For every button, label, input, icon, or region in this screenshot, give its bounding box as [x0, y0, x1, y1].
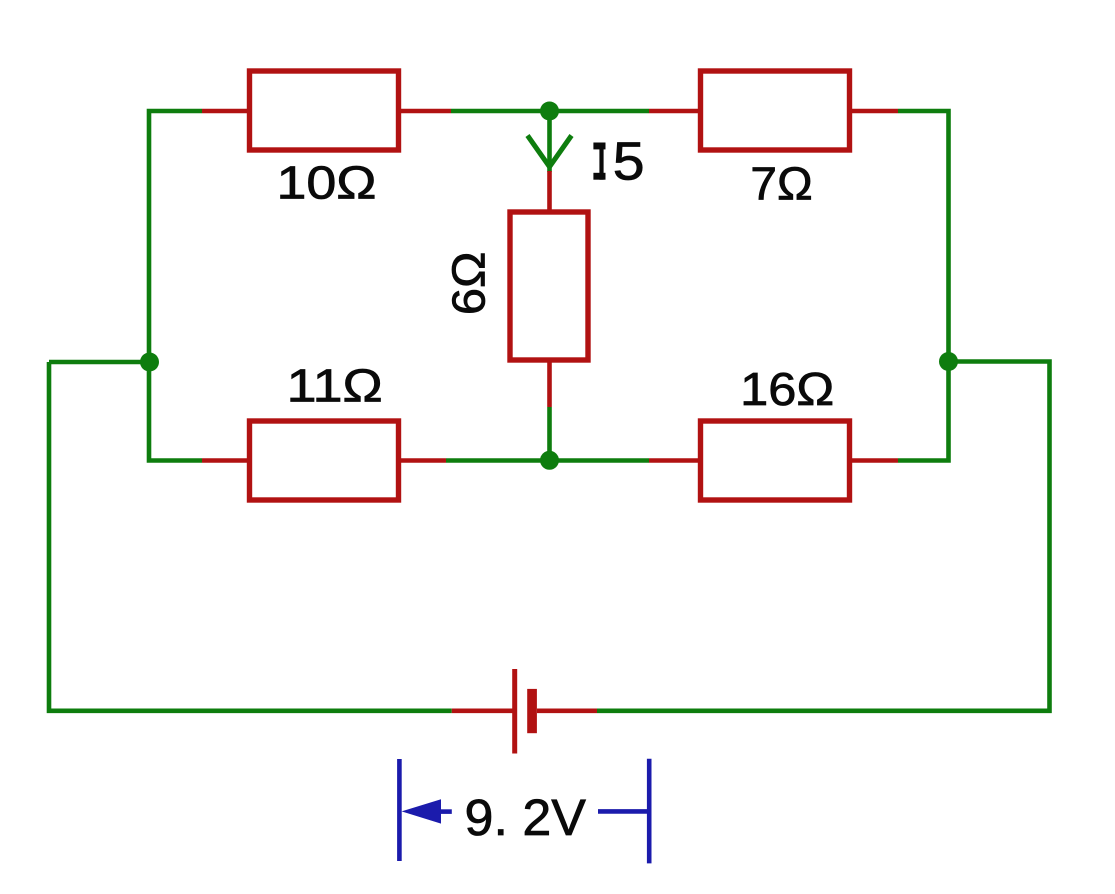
- resistor R3 11ohm box: [250, 421, 399, 500]
- junction dot top node: [540, 102, 559, 121]
- dimension arrow tail stub: [440, 809, 452, 814]
- svg-text:10Ω: 10Ω: [276, 157, 376, 208]
- current arrow I5 head: [528, 136, 572, 167]
- label I5 : serif I drawn as bars: [593, 143, 605, 180]
- junction dot center node: [540, 451, 559, 470]
- wire red lead right of R 11ohm: [396, 458, 446, 463]
- dimension arrowhead blue: [402, 799, 441, 823]
- wire left inner below dot to 11ohm row: [149, 362, 202, 461]
- wire red lead left of R 16ohm: [649, 458, 703, 463]
- wire red lead right of R 16ohm: [847, 458, 898, 463]
- wire red lead right of R 7ohm: [847, 109, 898, 114]
- wire left outer vertical and bottom-left green: [49, 362, 452, 711]
- label 11ohm: [287, 360, 383, 411]
- label 6ohm rotated: [444, 252, 495, 316]
- wire red lead right of R 10ohm: [397, 109, 451, 114]
- wire middle row center green: [446, 458, 649, 463]
- junction dot right node: [939, 352, 958, 371]
- resistor R5 6ohm box vertical: [510, 212, 588, 360]
- wire right inner below dot to 16ohm row: [898, 362, 949, 461]
- svg-text:11Ω: 11Ω: [287, 360, 383, 411]
- wire red lead right of battery: [537, 708, 597, 713]
- dimension right line blue: [598, 809, 647, 814]
- wire red lead above 6ohm: [547, 171, 552, 214]
- wire red lead below 6ohm: [547, 358, 552, 407]
- wire top-middle green segment: [451, 109, 649, 114]
- resistor R1 10ohm box: [250, 71, 399, 150]
- wire red lead left of battery: [452, 708, 514, 713]
- wire red lead left of R 10ohm: [202, 109, 251, 114]
- label 10ohm: [276, 157, 376, 208]
- wire red lead left of R 7ohm: [649, 109, 703, 114]
- wire bottom-right green and right outer vertical and right dot horizontal: [597, 362, 1050, 711]
- svg-text:7Ω: 7Ω: [750, 158, 812, 209]
- svg-text:6Ω: 6Ω: [444, 252, 495, 316]
- resistor R4 16ohm box: [701, 421, 850, 500]
- junction dot left node: [140, 353, 159, 372]
- wire green lead below 6ohm: [547, 407, 552, 461]
- label 9.2V: [465, 788, 587, 845]
- dimension right tick blue: [647, 759, 652, 864]
- label 7ohm: [750, 158, 812, 209]
- wire top-right green segment and right inner vertical upper: [898, 111, 949, 362]
- svg-text:16Ω: 16Ω: [740, 364, 834, 415]
- wire top-left green segment and left inner vertical: [149, 111, 202, 362]
- wire green stem of current arrow: [547, 115, 552, 172]
- svg-text:5: 5: [613, 131, 645, 191]
- battery long plate: [512, 669, 517, 754]
- dimension left tick blue: [397, 759, 402, 861]
- battery short thick plate: [527, 689, 537, 733]
- resistor R2 7ohm box: [701, 71, 850, 150]
- wire left dot to outer horizontal: [49, 360, 149, 365]
- label 16ohm: [740, 364, 834, 415]
- label I5 digit 5: [613, 131, 645, 191]
- svg-text:9. 2V: 9. 2V: [465, 788, 587, 845]
- wire red lead left of R 11ohm: [202, 458, 251, 463]
